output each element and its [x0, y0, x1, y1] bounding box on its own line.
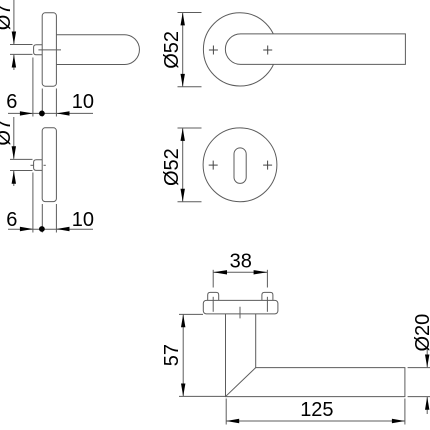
view3 dia52 bottom arrow [181, 74, 185, 87]
view5 57 bottom arrow [181, 384, 185, 397]
view5 right screw slot line [266, 297, 268, 312]
view2 dia7 extension lines [10, 158, 33, 160]
view5 mitre diagonal [226, 368, 256, 397]
view2 6-10 dimension line [8, 228, 93, 230]
view5 57 dimension line [182, 314, 184, 396]
view4 escutcheon front circle [203, 128, 277, 202]
view4 dia52 extension lines [178, 127, 202, 129]
view5 57 top arrow [181, 314, 185, 327]
view2 junction dot [39, 226, 45, 232]
view2 6-10 extension lines [32, 173, 34, 233]
view5 dia20 dimension line [426, 349, 428, 367]
svg-text:Ø7: Ø7 [0, 4, 15, 31]
view4 dia52 dimension line [182, 128, 184, 202]
view1 spindle stub [34, 45, 43, 55]
view5 125 extension lines [225, 399, 227, 425]
view5 right screw head [262, 292, 273, 300]
svg-text:Ø52: Ø52 [161, 31, 183, 69]
view2 spindle stub [34, 160, 43, 171]
view5 mounting plate [203, 300, 278, 314]
view2 rose side profile [42, 128, 56, 202]
view3 left screw cross [209, 46, 218, 55]
view5 125 right arrow [392, 419, 405, 423]
view1 6-10 extension lines [32, 58, 34, 117]
svg-text:57: 57 [161, 344, 183, 366]
view3 dia52 extension lines [178, 12, 202, 14]
svg-text:6: 6 [6, 209, 17, 231]
view1 dia7 bottom arrow [12, 55, 16, 68]
svg-text:10: 10 [72, 91, 94, 113]
view4 dia52 top arrow [181, 128, 185, 141]
view5 125 left arrow [226, 419, 239, 423]
view1 6-10 dimension line [8, 112, 93, 114]
view2 dia7 dimension line [13, 117, 15, 159]
view5 57 extension lines [179, 313, 203, 315]
svg-text:125: 125 [300, 399, 333, 421]
view1 dia7 top arrow [12, 32, 16, 45]
svg-text:Ø52: Ø52 [161, 148, 183, 186]
view5 38 right arrow [254, 270, 268, 274]
view5 left screw slot line [212, 297, 214, 312]
view2 dia7 bottom arrow [12, 171, 16, 184]
view3 rose front circle [203, 13, 276, 86]
view1 neck joint line [38, 49, 61, 51]
view5 38 extension lines [212, 270, 214, 288]
svg-text:38: 38 [230, 250, 252, 272]
svg-text:Ø7: Ø7 [0, 119, 15, 146]
view4 left screw cross [209, 161, 218, 170]
view2 centre dashes [31, 164, 35, 166]
view1 dia7 dimension line [13, 0, 15, 44]
view5 plate centre tick [239, 307, 241, 319]
view2 10 arrow [57, 227, 70, 231]
view2 6 arrow [20, 227, 33, 231]
svg-text:10: 10 [72, 209, 94, 231]
view5 left screw head [208, 292, 219, 300]
view1 dia7 extension lines [10, 44, 33, 46]
view5 handle neck and grip outline [226, 314, 405, 397]
view3 right screw cross [263, 46, 272, 55]
view5 38 left arrow [213, 270, 227, 274]
view2 dia7 top arrow [12, 146, 16, 159]
view4 keyhole slot [234, 148, 246, 184]
view1 lever bar side [56, 35, 139, 65]
view1 rose side profile [42, 13, 56, 86]
view1 10 arrow [57, 111, 70, 115]
svg-text:Ø20: Ø20 [412, 314, 430, 352]
view4 dia52 bottom arrow [181, 189, 185, 202]
svg-text:6: 6 [6, 91, 17, 113]
view3 dia52 top arrow [181, 13, 185, 26]
view5 dia20 extension lines [408, 367, 430, 369]
view5 38 dimension line [213, 271, 267, 273]
view3 dia52 dimension line [182, 13, 184, 87]
view5 dia20 bottom arrow [425, 397, 429, 410]
view4 right screw cross [263, 161, 272, 170]
view1 junction dot [39, 111, 45, 117]
view5 125 dimension line [226, 420, 405, 422]
view1 6 arrow [20, 111, 33, 115]
view5 dia20 top arrow [425, 355, 429, 368]
view3 lever bar front [225, 34, 405, 65]
